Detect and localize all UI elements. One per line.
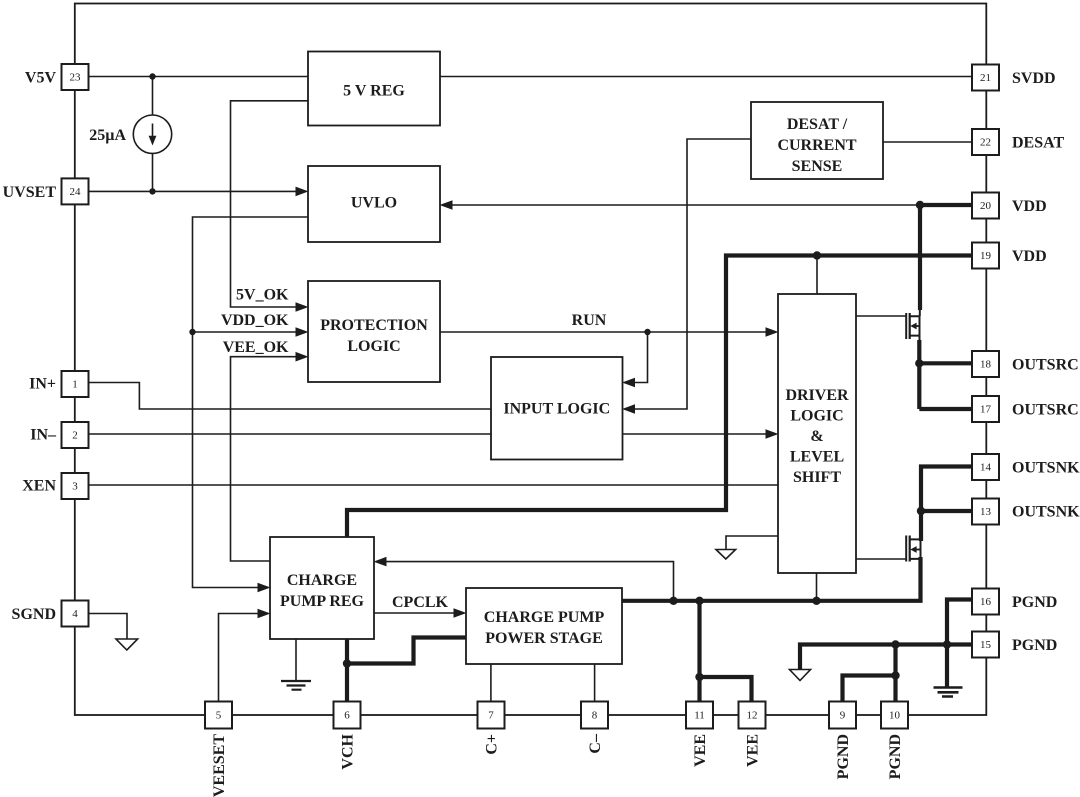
pin 15	[972, 632, 999, 658]
wire C+ pin7	[490, 664, 492, 702]
pin 11	[686, 702, 713, 729]
pin 6	[334, 702, 361, 729]
svg-text:OUTSRC: OUTSRC	[1012, 402, 1079, 419]
svg-text:UVSET: UVSET	[3, 184, 57, 201]
wire RUN protection logic to driver logic	[440, 331, 766, 333]
pin 21	[972, 65, 999, 91]
wire charge pump reg feedback from VEE bus	[386, 562, 674, 601]
node VEE bus junction b	[695, 597, 703, 605]
svg-text:16: 16	[980, 596, 992, 608]
wire VEE_OK from charge pump reg	[231, 357, 297, 561]
svg-text:LEVEL: LEVEL	[790, 449, 844, 466]
svg-text:11: 11	[694, 710, 705, 722]
svg-text:PUMP REG: PUMP REG	[280, 593, 365, 610]
svg-text:5: 5	[216, 710, 222, 722]
transistor Q1 gate wire	[856, 315, 906, 317]
node VDD19 junction	[813, 251, 821, 259]
svg-text:PGND: PGND	[1012, 637, 1057, 654]
pin 24	[62, 178, 89, 204]
wire 5V REG output to 5V_OK	[231, 101, 309, 307]
current source I1 circle	[133, 115, 171, 153]
node VCH junction	[343, 659, 351, 667]
svg-text:SHIFT: SHIFT	[793, 469, 841, 486]
wire VDD_OK branch	[193, 331, 297, 333]
wire V5V pin23 to 5V REG	[89, 76, 309, 78]
node VDD junction	[916, 201, 924, 209]
transistor Q2 gate wire	[856, 558, 906, 560]
svg-text:23: 23	[70, 72, 82, 84]
arrow RUN branch into input logic	[622, 378, 635, 388]
svg-text:XEN: XEN	[22, 478, 56, 495]
wire IN- pin2 to input logic	[89, 433, 492, 435]
ground PGND open triangle	[790, 670, 811, 681]
block INPUT LOGIC	[491, 357, 623, 460]
svg-text:7: 7	[488, 710, 494, 722]
svg-text:OUTSNK: OUTSNK	[1012, 460, 1080, 477]
transistor Q2 symbol	[905, 536, 907, 562]
svg-text:VEE: VEE	[692, 734, 709, 767]
svg-text:CHARGE PUMP: CHARGE PUMP	[484, 609, 605, 626]
wire Q1 source to OUTSRC (thick)	[919, 336, 921, 341]
svg-text:CHARGE: CHARGE	[287, 572, 357, 589]
svg-text:DESAT: DESAT	[1012, 135, 1064, 152]
svg-text:&: &	[810, 428, 823, 445]
svg-text:14: 14	[980, 462, 992, 474]
wire VEE pins feed (thick)	[700, 601, 752, 702]
svg-text:IN–: IN–	[30, 427, 57, 444]
ground charge pump reg earth stub	[295, 639, 297, 681]
pin 17	[972, 396, 999, 422]
block CHARGE PUMP POWER STAGE	[466, 588, 622, 664]
ground driver logic open triangle	[716, 550, 736, 560]
pin 19	[972, 243, 999, 269]
transistor Q1 symbol	[905, 313, 907, 339]
current source I1 stub top	[152, 77, 154, 116]
wire PGND pin15 (thick)	[800, 645, 972, 670]
node UVSET junction	[149, 188, 155, 194]
pin 7	[478, 702, 505, 729]
svg-text:C+: C+	[484, 734, 501, 755]
svg-text:CURRENT: CURRENT	[777, 137, 856, 154]
ground charge pump reg earth lines	[281, 681, 311, 690]
pin 4	[62, 601, 89, 627]
wire CPCLK	[374, 612, 454, 614]
node OUTSRC junction	[915, 359, 923, 367]
svg-text:LOGIC: LOGIC	[347, 338, 400, 355]
svg-text:10: 10	[889, 710, 901, 722]
pin 1	[62, 371, 89, 397]
node RUN junction	[644, 329, 650, 335]
block 5V REG	[308, 52, 440, 126]
svg-text:VDD: VDD	[1012, 248, 1047, 265]
block CHARGE PUMP REG	[270, 537, 374, 639]
wire VDD pin20 to UVLO (arrowed)	[452, 204, 920, 206]
svg-text:20: 20	[980, 200, 992, 212]
svg-text:VEESET: VEESET	[211, 734, 228, 797]
svg-text:INPUT LOGIC: INPUT LOGIC	[503, 401, 610, 418]
pin 23	[62, 64, 89, 90]
current source I1 stub bottom	[152, 153, 154, 191]
svg-text:VDD: VDD	[1012, 198, 1047, 215]
svg-text:5 V REG: 5 V REG	[343, 83, 405, 100]
svg-text:9: 9	[840, 710, 846, 722]
wire SGND pin4 to ground	[89, 614, 128, 640]
node PGND tee junction	[891, 671, 899, 679]
ground SGND open triangle	[116, 639, 138, 650]
svg-text:2: 2	[72, 430, 78, 442]
pin 2	[62, 422, 89, 448]
svg-text:15: 15	[980, 639, 992, 651]
svg-text:13: 13	[980, 506, 992, 518]
node VEE bus junction a	[669, 597, 677, 605]
IC outer border	[75, 4, 987, 716]
wire VCH pin6 to charge pump reg (thick)	[345, 639, 349, 702]
svg-text:VDD_OK: VDD_OK	[221, 312, 289, 329]
svg-text:CPCLK: CPCLK	[392, 594, 449, 611]
svg-text:OUTSNK: OUTSNK	[1012, 504, 1080, 521]
pin 13	[972, 499, 999, 525]
wire VDD pin20 thick	[920, 203, 972, 207]
block UVLO	[308, 166, 440, 242]
wire PGND pin16 to earth (thick)	[947, 600, 972, 688]
svg-text:17: 17	[980, 404, 992, 416]
node VDD_OK junction	[189, 329, 195, 335]
arrow into charge pump reg right	[374, 557, 387, 567]
node PGND cross junction	[943, 640, 951, 648]
svg-text:8: 8	[592, 710, 598, 722]
pin 9	[829, 702, 856, 729]
node VEE bus junction c	[812, 597, 820, 605]
wire PGND pins 9/10 feed (thick)	[843, 645, 896, 702]
svg-text:DESAT /: DESAT /	[787, 116, 848, 133]
svg-text:LOGIC: LOGIC	[790, 408, 843, 425]
svg-text:PGND: PGND	[887, 734, 904, 779]
wire 5V REG to SVDD pin21	[440, 76, 972, 78]
block PROTECTION LOGIC	[308, 281, 440, 382]
wire VCH to charge pump power stage (thick)	[347, 638, 466, 664]
node OUTSNK junction	[917, 507, 925, 515]
svg-text:POWER STAGE: POWER STAGE	[485, 630, 603, 647]
svg-text:PGND: PGND	[1012, 594, 1057, 611]
svg-text:12: 12	[747, 710, 758, 722]
wire DESAT sense to input logic	[635, 139, 752, 409]
svg-text:RUN: RUN	[572, 312, 607, 329]
svg-text:24: 24	[70, 186, 82, 198]
wire RUN branch to input logic	[635, 332, 648, 383]
svg-text:21: 21	[980, 72, 991, 84]
wire driver logic VDD feed	[816, 256, 818, 295]
arrow into UVLO right	[440, 200, 453, 210]
node VEE tee junction	[695, 673, 703, 681]
svg-text:IN+: IN+	[29, 376, 56, 393]
svg-text:VEE_OK: VEE_OK	[223, 339, 289, 356]
node PGND junction d	[891, 640, 899, 648]
svg-text:DRIVER: DRIVER	[785, 387, 849, 404]
svg-text:C–: C–	[587, 733, 604, 754]
pin 5	[205, 702, 232, 729]
pin 20	[972, 193, 999, 219]
svg-text:PGND: PGND	[835, 734, 852, 779]
svg-text:VEE: VEE	[745, 734, 762, 767]
wire VEESET pin5 to charge pump reg	[219, 614, 259, 702]
svg-text:19: 19	[980, 250, 992, 262]
block DESAT / CURRENT SENSE	[751, 102, 883, 179]
svg-text:V5V: V5V	[25, 70, 57, 87]
svg-text:6: 6	[344, 710, 350, 722]
wire VDD pin19 to charge pump reg (thick)	[347, 256, 972, 538]
svg-text:5V_OK: 5V_OK	[236, 287, 289, 304]
arrow into charge pump reg upper	[258, 583, 271, 593]
pin 3	[62, 473, 89, 499]
svg-text:UVLO: UVLO	[351, 195, 397, 212]
arrow input logic into driver	[766, 429, 779, 439]
wire UVSET pin24 to UVLO (arrowed)	[89, 190, 297, 192]
wire UVLO to VDD_OK / charge pump reg	[193, 217, 309, 588]
wire C- pin8	[594, 664, 596, 702]
svg-text:PROTECTION: PROTECTION	[320, 317, 428, 334]
arrow CPCLK into power stage	[454, 608, 467, 618]
wire driver logic to VEE bus	[816, 573, 818, 601]
pin 14	[972, 454, 999, 480]
pin 8	[581, 702, 608, 729]
pin 18	[972, 351, 999, 377]
pin 12	[739, 702, 766, 729]
svg-text:18: 18	[980, 359, 992, 371]
svg-text:4: 4	[72, 608, 78, 620]
pin 10	[881, 702, 908, 729]
wire VEE bus (thick)	[622, 557, 921, 601]
svg-text:SVDD: SVDD	[1012, 70, 1056, 87]
arrow VEE_OK	[296, 352, 309, 362]
ground PGND earth lines	[934, 688, 963, 697]
arrow RUN into driver	[766, 327, 779, 337]
arrow into charge pump reg lower	[258, 609, 271, 619]
svg-text:SENSE: SENSE	[792, 158, 843, 175]
wire Q1 drain to VDD (thick)	[918, 205, 922, 310]
wire XEN pin3 to driver logic	[89, 484, 779, 486]
wire DESAT sense to pin22	[883, 141, 972, 143]
svg-text:1: 1	[72, 379, 78, 391]
arrow DESAT into input logic	[622, 404, 635, 414]
svg-text:OUTSRC: OUTSRC	[1012, 357, 1079, 374]
arrow into UVLO left	[296, 187, 309, 197]
block DRIVER LOGIC & LEVEL SHIFT	[778, 294, 856, 573]
svg-text:22: 22	[980, 137, 991, 149]
pin 16	[972, 589, 999, 615]
svg-text:VCH: VCH	[340, 733, 357, 769]
arrow VDD_OK	[296, 327, 309, 337]
ground driver logic stub	[726, 536, 778, 550]
svg-text:3: 3	[72, 481, 78, 493]
svg-text:25µA: 25µA	[89, 127, 126, 144]
wire IN+ pin1 to input logic	[89, 383, 492, 410]
arrow 5V_OK	[296, 302, 309, 312]
node V5V junction	[149, 73, 155, 79]
pin 22	[972, 129, 999, 155]
wire input logic to driver logic	[623, 433, 767, 435]
svg-text:SGND: SGND	[12, 606, 56, 623]
current source I1 internal arrow	[152, 124, 154, 138]
wire OUTSNK pins to Q2 (thick)	[921, 467, 972, 542]
